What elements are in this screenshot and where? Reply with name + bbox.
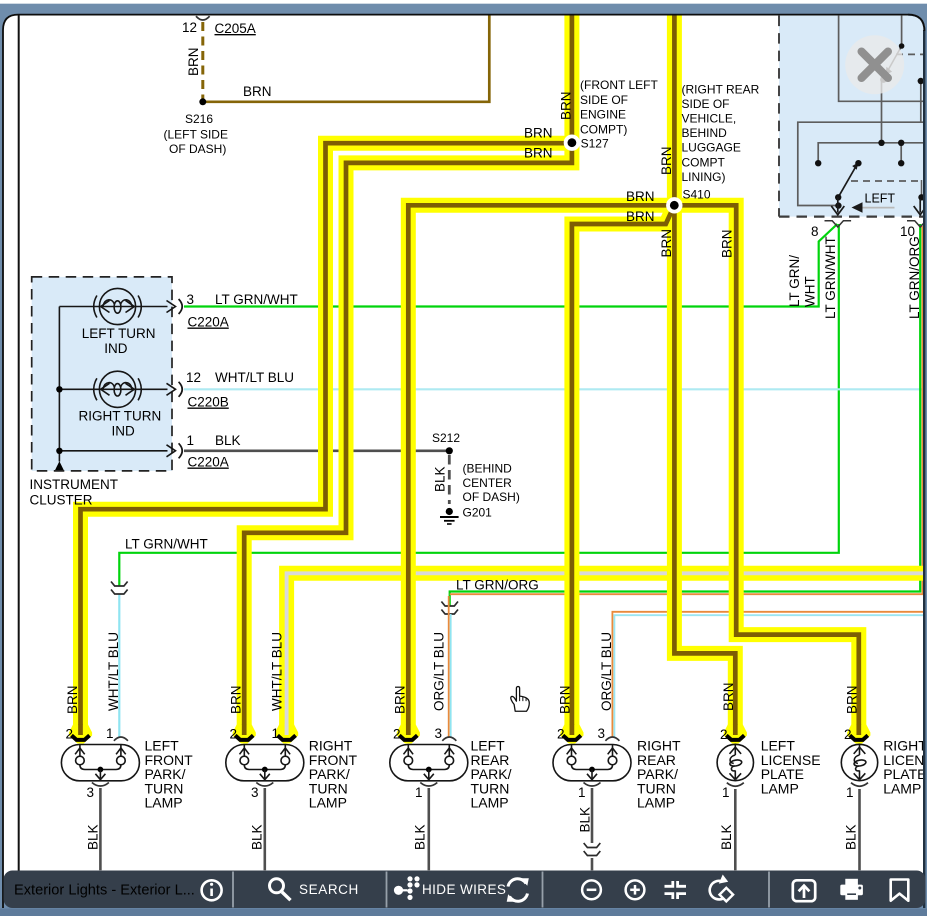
left direction arrow	[861, 207, 895, 209]
connector arc left rear pin 3	[442, 737, 456, 741]
svg-text:ENGINE: ENGINE	[580, 108, 626, 122]
svg-text:1: 1	[846, 785, 854, 800]
svg-text:BRN: BRN	[626, 209, 655, 224]
info icon	[202, 880, 222, 900]
node S216	[199, 98, 206, 105]
svg-text:RIGHT TURN: RIGHT TURN	[79, 409, 162, 424]
svg-text:SIDE OF: SIDE OF	[580, 93, 628, 107]
bookmark icon	[891, 880, 909, 901]
svg-text:WHT/LT BLU: WHT/LT BLU	[106, 632, 121, 711]
BRN core: top feed through S410 to left license lamp pin 2	[674, 16, 735, 736]
hide wires icon	[394, 876, 420, 900]
BRN core: S410 to left rear lamp pin 2	[408, 205, 674, 735]
lamp LEFT TURN IND	[94, 288, 142, 324]
close button	[845, 35, 904, 94]
svg-text:1: 1	[271, 726, 279, 741]
BRN core: S410 to right license lamp pin 2	[674, 205, 859, 735]
svg-text:BLK: BLK	[413, 824, 428, 850]
lamp LEFT LICENSE PLATE	[717, 744, 753, 786]
svg-text:SEARCH: SEARCH	[299, 882, 359, 897]
diagram page border left	[18, 15, 20, 871]
highlighted WHT/LT BLU wire core	[287, 573, 924, 735]
wire BLK below right rear lamp with interrupt	[591, 788, 594, 843]
svg-text:LAMP: LAMP	[309, 795, 347, 811]
svg-text:VEHICLE,: VEHICLE,	[682, 112, 737, 126]
lamp pin numbers top	[65, 726, 851, 742]
switch inset wiper arrow	[838, 168, 855, 197]
svg-text:BRN: BRN	[229, 685, 244, 714]
print icon	[840, 879, 863, 900]
headlight switch inset panel	[779, 16, 925, 217]
wire LT GRN/ORG from switch pin 10	[450, 224, 921, 606]
switch inset dashed detent	[896, 53, 923, 55]
svg-text:BLK: BLK	[86, 824, 101, 850]
svg-text:BLK: BLK	[844, 824, 859, 850]
wire WHT/LT BLU from C220B across	[184, 388, 924, 390]
highlighted WHT/LT BLU wire band (right edge to right front lamp pin 1)	[287, 573, 924, 728]
export icon	[793, 880, 815, 901]
svg-text:(RIGHT REAR: (RIGHT REAR	[682, 82, 760, 96]
wire BLK from C220A to S212	[184, 449, 449, 452]
svg-text:BLK: BLK	[578, 807, 593, 833]
switch inset junction dots	[815, 43, 925, 200]
lamp RIGHT REAR PARK/TURN	[553, 745, 631, 787]
svg-text:3: 3	[434, 726, 442, 741]
svg-text:BRN: BRN	[626, 189, 655, 204]
highlighted BRN band: S410 to right rear lamp pin 2	[572, 205, 674, 728]
svg-text:2: 2	[65, 727, 73, 742]
rounded top-right corner	[908, 13, 927, 32]
svg-text:BRN: BRN	[558, 685, 573, 714]
lamp RIGHT TURN IND	[94, 371, 142, 407]
connector arrows crossing panel edge pin 10	[914, 199, 927, 215]
fit to screen icon	[665, 881, 687, 899]
highlighted BRN band: top feed through S127 to left front lamp pin 2	[81, 16, 572, 729]
svg-text:LINING): LINING)	[682, 170, 726, 184]
interrupt symbol	[111, 582, 128, 595]
svg-text:C205A: C205A	[215, 21, 256, 36]
wire BLK below left license lamp	[734, 789, 737, 870]
toolbar separators	[233, 872, 769, 908]
svg-text:BLK: BLK	[433, 466, 448, 492]
node S212	[446, 447, 453, 454]
svg-text:S127: S127	[581, 137, 609, 151]
svg-text:1: 1	[187, 433, 195, 448]
svg-text:ORG/LT BLU: ORG/LT BLU	[599, 632, 614, 711]
toolbar background	[4, 871, 926, 909]
wire tips at lamp pins	[69, 724, 92, 744]
svg-text:LAMP: LAMP	[761, 780, 799, 796]
lamp LEFT REAR PARK/TURN	[390, 745, 468, 787]
svg-text:LEFT: LEFT	[865, 191, 896, 205]
wire LT GRN/WHT second from pin 8 down-left to front lamps	[119, 224, 839, 586]
svg-text:INSTRUMENT: INSTRUMENT	[30, 477, 119, 492]
svg-text:LT GRN/: LT GRN/	[787, 255, 802, 307]
svg-text:8: 8	[811, 224, 819, 239]
svg-text:12: 12	[186, 370, 201, 385]
lamp pin numbers bottom	[86, 785, 853, 800]
reset rotation icon	[710, 881, 726, 900]
svg-text:LT GRN/WHT: LT GRN/WHT	[125, 537, 208, 552]
wire BRN solid S216 to top	[203, 16, 490, 102]
svg-text:ORG/LT BLU: ORG/LT BLU	[432, 632, 447, 711]
svg-text:(LEFT SIDE: (LEFT SIDE	[164, 128, 228, 142]
svg-text:BRN: BRN	[65, 685, 80, 714]
node S127	[564, 135, 580, 151]
switch inset rectangle	[839, 16, 927, 102]
lamp RIGHT FRONT PARK/TURN	[226, 745, 304, 787]
svg-text:Exterior Lights - Exterior L..: Exterior Lights - Exterior L...	[14, 882, 195, 898]
wire BLK below left rear lamp	[427, 788, 430, 870]
svg-text:3: 3	[251, 785, 259, 800]
svg-text:SIDE OF: SIDE OF	[682, 97, 730, 111]
svg-text:1: 1	[106, 726, 114, 741]
svg-text:2: 2	[720, 727, 728, 742]
svg-text:(FRONT LEFT: (FRONT LEFT	[580, 78, 658, 92]
svg-text:BLK: BLK	[215, 433, 241, 448]
wire BRN dashed from C205A	[201, 22, 204, 99]
svg-text:LEFT TURN: LEFT TURN	[82, 326, 156, 341]
connector C205A arc	[196, 16, 210, 20]
refresh icon	[508, 879, 528, 902]
svg-text:S410: S410	[683, 188, 711, 202]
svg-text:BRN: BRN	[721, 682, 736, 711]
svg-text:BLK: BLK	[250, 824, 265, 850]
lamp LEFT FRONT PARK/TURN	[61, 745, 139, 787]
svg-text:BRN: BRN	[659, 229, 674, 258]
svg-text:1: 1	[415, 785, 423, 800]
svg-text:1: 1	[578, 785, 586, 800]
switch inset contact row	[818, 143, 923, 163]
svg-text:OF DASH): OF DASH)	[169, 142, 226, 156]
svg-text:2: 2	[393, 727, 401, 742]
BRN core: top feed through S127 to left front lamp pin 2	[81, 16, 572, 736]
svg-text:LAMP: LAMP	[145, 795, 183, 811]
wire LT GRN/WHT from C220A to switch pin 8	[184, 224, 837, 307]
svg-text:LUGGAGE: LUGGAGE	[682, 141, 741, 155]
svg-text:BRN: BRN	[186, 47, 201, 76]
svg-text:IND: IND	[104, 341, 128, 356]
svg-text:LT GRN/WHT: LT GRN/WHT	[215, 292, 298, 307]
instrument cluster internal rail	[59, 307, 167, 462]
svg-text:C220A: C220A	[188, 455, 229, 470]
cluster ground triangle	[55, 461, 64, 470]
svg-text:BEHIND: BEHIND	[682, 126, 728, 140]
lamp name labels	[145, 738, 927, 811]
wire ORG/LT BLU right rear lamp pin 3 to right edge	[612, 612, 923, 737]
wire BLK dashed S212 to G201	[448, 455, 451, 504]
svg-text:LT GRN/ORG: LT GRN/ORG	[907, 236, 922, 319]
svg-text:BRN: BRN	[559, 91, 574, 120]
wire BLK below right license lamp	[858, 789, 861, 870]
right chrome border	[923, 30, 925, 871]
highlighted BRN band: S410 to left rear lamp pin 2	[408, 205, 674, 728]
connector C220A pin 3	[167, 299, 183, 314]
svg-text:2: 2	[229, 727, 237, 742]
svg-text:2: 2	[844, 727, 852, 742]
switch inset wiper line	[901, 16, 903, 46]
wire BLK below right front lamp	[263, 788, 266, 870]
search icon	[270, 879, 284, 893]
lamp RIGHT LICENSE PLATE	[841, 744, 877, 786]
diagram page border right	[923, 15, 925, 908]
zoom out icon	[582, 880, 601, 899]
svg-text:C220B: C220B	[188, 395, 229, 410]
connector C220B pin 12	[167, 382, 183, 397]
svg-text:LAMP: LAMP	[883, 780, 921, 796]
wire BLK below left front lamp	[99, 788, 102, 870]
BRN core: S410 to right rear lamp pin 2	[572, 205, 674, 735]
wire ORG companion of LT GRN/ORG	[450, 226, 923, 594]
svg-text:HIDE WIRES: HIDE WIRES	[422, 882, 506, 897]
connector arc right rear pin 3	[605, 737, 619, 741]
interrupt symbol	[441, 602, 458, 615]
svg-text:WHT: WHT	[803, 276, 818, 307]
svg-text:BRN: BRN	[845, 685, 860, 714]
svg-text:BRN: BRN	[720, 229, 735, 258]
connector arrows crossing panel edge pin 8	[835, 202, 841, 208]
node S410	[666, 197, 682, 213]
mouse cursor	[511, 687, 530, 712]
svg-text:IND: IND	[112, 423, 136, 438]
svg-text:COMPT): COMPT)	[580, 122, 627, 136]
svg-text:12: 12	[182, 20, 197, 35]
svg-text:WHT/LT BLU: WHT/LT BLU	[215, 370, 294, 385]
connector C220A pin 1	[167, 443, 183, 458]
wire WHT/LT BLU to left front lamp pin 1	[118, 594, 120, 737]
svg-text:LT GRN/ORG: LT GRN/ORG	[456, 578, 539, 593]
instrument cluster box	[32, 277, 172, 471]
zoom in icon	[626, 880, 645, 899]
svg-text:BRN: BRN	[243, 84, 272, 99]
svg-text:BRN: BRN	[524, 126, 553, 141]
svg-text:3: 3	[86, 785, 94, 800]
svg-text:OF DASH): OF DASH)	[463, 490, 520, 504]
svg-text:CLUSTER: CLUSTER	[30, 493, 93, 508]
svg-text:G201: G201	[463, 506, 493, 520]
BRN core: S127 to right front lamp pin 2	[244, 143, 572, 735]
svg-text:BRN: BRN	[524, 146, 553, 161]
svg-text:3: 3	[597, 726, 605, 741]
ground G201	[440, 508, 459, 524]
svg-text:2: 2	[557, 727, 565, 742]
svg-text:BRN: BRN	[659, 146, 674, 175]
svg-text:BLK: BLK	[719, 824, 734, 850]
svg-text:C220A: C220A	[188, 315, 229, 330]
switch inset horizontal rail	[798, 122, 925, 205]
highlighted BRN band: S127 to right front lamp pin 2	[244, 143, 572, 728]
svg-text:CENTER: CENTER	[463, 476, 513, 490]
svg-text:1: 1	[722, 785, 730, 800]
svg-text:3: 3	[187, 292, 195, 307]
junction dots on rail	[56, 386, 62, 392]
svg-text:(BEHIND: (BEHIND	[463, 462, 513, 476]
svg-text:COMPT: COMPT	[682, 155, 726, 169]
svg-text:BRN: BRN	[393, 685, 408, 714]
svg-text:LT GRN/WHT: LT GRN/WHT	[823, 236, 838, 319]
highlighted BRN band: S410 to right license lamp pin 2	[674, 205, 859, 728]
highlighted BRN band: top feed through S410 to left license lamp pin 2	[674, 16, 735, 729]
svg-text:LAMP: LAMP	[637, 795, 675, 811]
svg-text:WHT/LT BLU: WHT/LT BLU	[270, 632, 285, 711]
svg-text:S212: S212	[432, 431, 460, 445]
wire ORG/LT BLU to left rear lamp pin 3	[448, 596, 450, 737]
connector arc left front pin 1	[114, 737, 128, 741]
svg-text:LAMP: LAMP	[471, 795, 509, 811]
svg-text:S216: S216	[185, 112, 213, 126]
